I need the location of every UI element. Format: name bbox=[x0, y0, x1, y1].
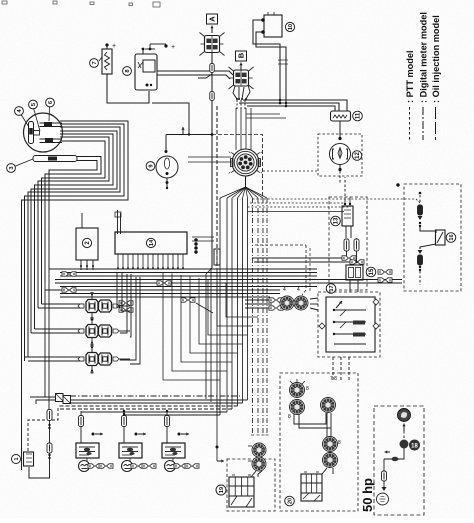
svg-text:8: 8 bbox=[338, 440, 341, 446]
svg-text:18: 18 bbox=[411, 444, 418, 450]
svg-text:+: + bbox=[171, 44, 175, 51]
svg-text:16: 16 bbox=[449, 234, 455, 240]
svg-text:14: 14 bbox=[149, 239, 155, 246]
svg-text:20: 20 bbox=[287, 498, 293, 504]
svg-text:4: 4 bbox=[283, 287, 286, 293]
svg-text:8: 8 bbox=[306, 386, 309, 392]
svg-text:17: 17 bbox=[329, 285, 335, 291]
svg-text:1: 1 bbox=[14, 457, 20, 460]
svg-text:4: 4 bbox=[297, 287, 300, 293]
svg-text:: PTT model: : PTT model bbox=[405, 50, 415, 103]
svg-text:7 8: 7 8 bbox=[330, 376, 337, 382]
svg-text:7: 7 bbox=[92, 61, 98, 64]
svg-text:: Digital meter model: : Digital meter model bbox=[419, 12, 429, 103]
svg-text:11: 11 bbox=[356, 112, 362, 119]
svg-text:13: 13 bbox=[334, 217, 340, 224]
svg-text:: Oil injection model: : Oil injection model bbox=[431, 15, 441, 103]
svg-text:10: 10 bbox=[288, 24, 294, 30]
svg-text:8: 8 bbox=[288, 414, 291, 420]
svg-text:+: + bbox=[112, 43, 116, 50]
svg-text:12: 12 bbox=[355, 152, 361, 159]
svg-text:15: 15 bbox=[369, 268, 375, 275]
svg-text:50 hp: 50 hp bbox=[360, 478, 375, 512]
svg-text:A: A bbox=[208, 16, 217, 22]
svg-text:B: B bbox=[237, 52, 246, 58]
svg-text:19: 19 bbox=[219, 487, 225, 493]
